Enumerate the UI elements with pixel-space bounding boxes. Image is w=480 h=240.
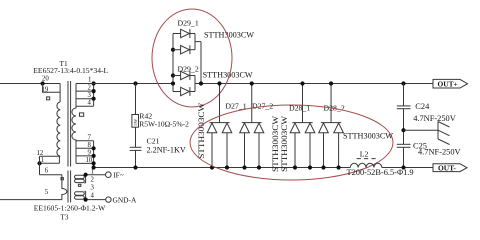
annotation ellipse diode array (190, 105, 393, 180)
node D27_1 anode junctions (210, 165, 229, 169)
svg-text:2: 2 (88, 85, 92, 92)
inductor L2 (350, 163, 382, 167)
capacitor C21 (130, 147, 142, 150)
wire T1 pin12 stub (40, 155, 61, 157)
svg-text:4: 4 (88, 100, 92, 107)
svg-text:20: 20 (42, 75, 49, 82)
svg-text:9: 9 (88, 149, 92, 156)
node bottom bus at T1 (92, 165, 96, 169)
wire R42 branch upper (135, 84, 137, 115)
diode D28_2 label (324, 104, 345, 113)
svg-text:C24: C24 (415, 102, 430, 111)
wire T3 pin5 (0, 189, 62, 200)
transformer T1 pin numbers 7-10 (86, 134, 93, 164)
transformer T3 secondary winding A (75, 175, 86, 183)
svg-text:R5W-10Ω-5%-2: R5W-10Ω-5%-2 (139, 120, 189, 129)
diode D28_2 right half (334, 123, 344, 168)
terminal OUT- (433, 163, 467, 172)
diode D29_1 lower half (173, 45, 195, 54)
wire C24 branch upper (403, 84, 405, 106)
svg-text:D29_2: D29_2 (178, 65, 199, 74)
node earth junction (401, 128, 405, 132)
svg-text:T200-52B-6.5-Φ1.9: T200-52B-6.5-Φ1.9 (347, 168, 414, 177)
svg-text:EE6527-13:4-0.15*34-L: EE6527-13:4-0.15*34-L (33, 66, 108, 75)
diode D28_2 left half (319, 123, 329, 168)
node D29 anode junctions (171, 48, 175, 86)
terminal IF~ (106, 171, 124, 180)
wire T3 pin4 to GND-A terminal (84, 199, 105, 201)
node D27_1 top junction (217, 81, 221, 85)
wire riser pins 11-12 to T3 pin6 (39, 156, 41, 175)
wire D29_1 cathode join (195, 34, 201, 50)
transformer T1 core (68, 81, 71, 167)
svg-text:3: 3 (91, 185, 95, 192)
inductor L2 value label (347, 168, 414, 177)
polarity mark T3 primary (61, 178, 63, 180)
svg-text:L2: L2 (360, 150, 369, 159)
svg-text:6: 6 (45, 167, 49, 174)
transformer T3 secondary winding B (75, 191, 86, 199)
resistor R42 value label (139, 112, 189, 129)
transformer T3 pin numbers 1-4 (91, 169, 95, 200)
node T1 pins 8-10 junctions (92, 146, 96, 165)
svg-text:STTH3003CW: STTH3003CW (271, 116, 280, 172)
diode D28_1 right half (305, 123, 315, 168)
svg-text:OUT-: OUT- (438, 163, 456, 172)
svg-text:3: 3 (88, 92, 92, 99)
node C25 branch bottom (401, 165, 405, 169)
svg-text:STTH3003CW: STTH3003CW (197, 103, 206, 159)
svg-text:4: 4 (91, 193, 95, 200)
node D27_2 top junction (250, 81, 254, 85)
node C21 branch bottom (133, 165, 137, 169)
svg-text:10: 10 (86, 157, 93, 164)
capacitor C24 value label (413, 102, 456, 123)
node D28_1 top junction (300, 81, 304, 85)
wire C24 to C25 (403, 109, 405, 145)
wire to chassis ground (404, 129, 439, 131)
transformer T3 label (34, 203, 106, 221)
node D27_2 anode junctions (242, 165, 261, 169)
svg-text:STTH3003CW: STTH3003CW (343, 132, 393, 141)
node D28_1 anode junctions (293, 165, 312, 169)
diode D29_2 upper half (173, 71, 195, 80)
diode D28_1 label (289, 104, 310, 113)
terminal GND-A (106, 195, 137, 204)
svg-text:5W: 5W (133, 118, 138, 125)
svg-text:STTH3003CW: STTH3003CW (203, 70, 253, 79)
svg-text:4.7NF-250V: 4.7NF-250V (418, 148, 461, 157)
transformer T3 core (68, 171, 71, 203)
svg-text:4.7NF-250V: 4.7NF-250V (413, 114, 456, 123)
diode D27_2 right half (254, 123, 264, 168)
wire bottom bus (94, 167, 433, 169)
polarity mark T1 secondary (80, 113, 84, 116)
wire T3 pin1 to IF terminal (84, 174, 105, 176)
wire D29 cathode bar (200, 42, 202, 84)
svg-text:5: 5 (45, 189, 49, 196)
svg-text:8: 8 (88, 142, 92, 149)
diode array part numbers vertical middle (271, 116, 289, 172)
node D28_2 anode junctions (321, 165, 340, 169)
transformer T1 pin numbers 1-4 (88, 77, 92, 107)
wire C21 bottom (135, 150, 137, 167)
polarity mark T3 secondary (78, 184, 81, 186)
svg-text:19: 19 (42, 86, 49, 93)
capacitor C25 value label (413, 142, 461, 157)
svg-text:OUT+: OUT+ (438, 79, 458, 88)
wire D28_2 cathode drop (321, 84, 341, 123)
svg-text:STTH3003CW: STTH3003CW (280, 116, 289, 172)
capacitor C24 (397, 106, 411, 109)
transformer T1 primary winding (57, 102, 60, 156)
diode D29_1 upper half (173, 29, 195, 38)
wire C25 bottom (403, 147, 405, 167)
wire R42 to C21 (135, 127, 137, 147)
diode array part number vertical left (197, 103, 206, 159)
node T3 pin1 junction (84, 173, 88, 177)
node pin12/11 junction (37, 161, 41, 165)
wire top bus left (76, 83, 173, 85)
transformer T1 label (33, 59, 108, 75)
diode D28_1 left half (290, 123, 300, 168)
wire T1 pins 1-4 stubs (76, 84, 94, 107)
node R42 branch top (133, 81, 137, 85)
diode D29_2 lower half (173, 87, 195, 96)
node pin20/19 junction (41, 81, 45, 85)
capacitor C25 (397, 144, 411, 147)
svg-text:2: 2 (91, 177, 95, 184)
wire D27_1 cathode drop (209, 84, 229, 123)
wire T1 pins 7-10 stubs (76, 141, 94, 168)
svg-text:T3: T3 (60, 213, 69, 222)
svg-text:2.2NF-1KV: 2.2NF-1KV (147, 145, 186, 154)
diode D27_1 label (225, 102, 246, 111)
wire D29_2 cathode join (195, 76, 201, 92)
node D28_2 top junction (329, 81, 333, 85)
diode D27_1 right half (222, 123, 232, 168)
inductor L2 label (357, 150, 379, 159)
node T1 pins 1-3 junctions (92, 81, 96, 100)
diode D27_1 left half (207, 123, 217, 168)
wire pin19 jog (43, 84, 61, 103)
wire D28_1 cathode drop (292, 84, 312, 123)
annotation ellipse D29 (152, 9, 232, 107)
transformer T3 primary winding (62, 175, 67, 200)
wire D29 anode bar (172, 34, 174, 92)
node C24 branch top (401, 81, 405, 85)
transformer T1 secondary winding (72, 84, 76, 164)
svg-text:1: 1 (88, 77, 91, 84)
node T3 pin4 junction (84, 198, 88, 202)
svg-text:7: 7 (88, 134, 92, 141)
diode D27_2 left half (240, 123, 250, 168)
capacitor C21 value label (147, 137, 186, 155)
wire T1 pin11 stub (40, 156, 60, 163)
wire primary input pin20 (0, 83, 60, 85)
svg-text:EE1605-1:260-Φ1.2-W: EE1605-1:260-Φ1.2-W (34, 203, 106, 212)
diode D29_1 label (178, 19, 255, 40)
terminal OUT+ (433, 79, 468, 88)
svg-text:D29_1: D29_1 (178, 19, 199, 28)
diode array part number right (343, 132, 393, 141)
diode D29_2 label (178, 65, 253, 80)
wire top bus right (195, 83, 433, 85)
node D29 output junction (199, 81, 203, 85)
resistor R42 (132, 115, 139, 128)
svg-text:GND-A: GND-A (113, 195, 137, 204)
wire T3 pin6 (40, 167, 62, 174)
diode D27_2 label (252, 101, 273, 110)
chassis ground (438, 122, 450, 145)
wire D27_2 cathode drop (242, 84, 262, 123)
transformer T1 pin numbers 20 19 12 11 (37, 75, 50, 164)
svg-text:IF~: IF~ (113, 171, 124, 180)
polarity mark T1 primary (47, 97, 50, 100)
